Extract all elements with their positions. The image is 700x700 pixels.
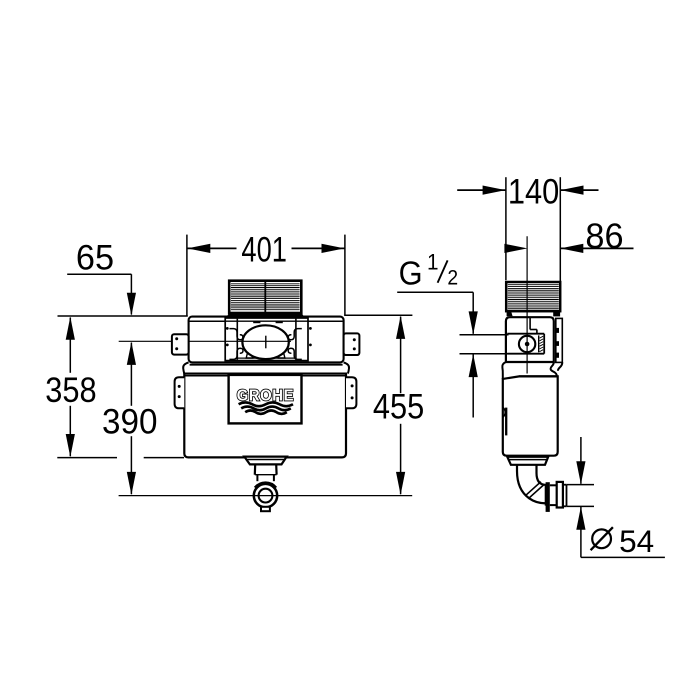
inlet housing, side: [507, 318, 544, 354]
shaft flange bits, side: [507, 312, 561, 317]
dimension 65 (leader): [67, 239, 136, 316]
svg-text:455: 455: [373, 387, 424, 426]
outlet centreline (dimension base): [119, 495, 413, 497]
side flush-pipe slot: [503, 407, 506, 435]
cistern upper body, front: [189, 317, 344, 363]
dimension 86: [504, 218, 633, 256]
shaft bottom flange, front: [227, 313, 304, 316]
lower-right mounting tab: [346, 377, 356, 408]
svg-text:358: 358: [45, 370, 96, 409]
dimension 455: [373, 316, 424, 495]
dimension 140: [457, 171, 598, 281]
outlet flange, side: [507, 457, 548, 465]
cistern lower body, front: [184, 374, 346, 458]
outlet clamp cap: [256, 484, 275, 488]
GROHE waves: [239, 402, 293, 414]
svg-text:86: 86: [585, 218, 623, 256]
outlet outer ring: [254, 484, 277, 507]
GROHE logo plate: [229, 375, 302, 424]
frame screw dots: [226, 327, 312, 346]
top reference line, right: [344, 314, 412, 316]
G1/2 inlet port circle: [519, 336, 535, 352]
svg-text:G: G: [399, 254, 423, 291]
lower-left mounting tab: [175, 377, 185, 408]
body shoulder transition: [183, 362, 349, 373]
upper-left mounting tab: [172, 334, 189, 354]
svg-text:140: 140: [508, 171, 559, 210]
svg-text:1: 1: [427, 249, 439, 275]
dimension diameter 54: [567, 437, 665, 559]
bottom reference line for 358: [57, 457, 184, 459]
access shaft (ribbed), side: [506, 282, 560, 311]
lower body chamfer line: [519, 375, 557, 377]
dimension 358: [45, 317, 96, 457]
svg-text:2: 2: [447, 267, 458, 290]
lower body double top line: [185, 375, 346, 377]
svg-text:390: 390: [102, 403, 157, 442]
svg-text:54: 54: [619, 523, 654, 559]
frame retaining clips: [229, 329, 301, 360]
pipe mouth: [563, 485, 567, 507]
outlet elbow, side: [517, 465, 546, 506]
dimension 401: [187, 230, 345, 315]
pipe clamp bar: [546, 482, 550, 512]
oval centre cross: [119, 336, 291, 349]
flush mechanism frame: [225, 318, 308, 361]
outlet flange, front: [244, 457, 286, 465]
svg-text:401: 401: [241, 230, 287, 269]
upper body, side: [506, 317, 554, 362]
wall rail, side: [556, 318, 563, 362]
elbow weld marks: [526, 482, 544, 499]
side shoulder pinch: [502, 362, 562, 379]
outlet inner ring: [259, 489, 273, 503]
svg-text:65: 65: [76, 239, 114, 277]
G 1/2 leader and arrows: [397, 292, 478, 417]
pipe ring: [557, 482, 563, 508]
side vertical centreline: [526, 236, 528, 373]
inlet port extension lines: [460, 335, 509, 354]
G 1/2 label: [399, 249, 459, 292]
pipe section: [550, 485, 557, 505]
outlet bottom tab: [261, 507, 270, 511]
top reference line, left: [58, 315, 188, 317]
outlet neck, front: [255, 464, 277, 481]
upper-right mounting tab: [344, 333, 360, 355]
mechanism oval (flush valve opening): [242, 325, 288, 359]
dimension 390: [102, 342, 157, 495]
lower body, side: [503, 376, 558, 455]
upper body inner top line: [190, 320, 343, 322]
access shaft (ribbed block), front: [229, 281, 301, 313]
